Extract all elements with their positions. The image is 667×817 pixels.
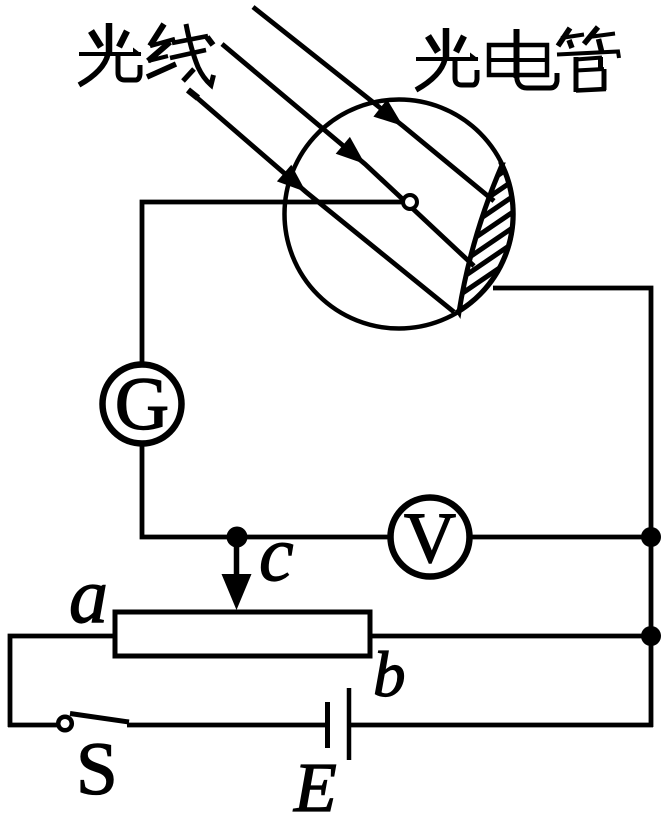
- wire: a-end to left vertical down: [10, 636, 115, 727]
- battery E: short plate: [325, 702, 330, 748]
- light ray 2 (middle): [222, 44, 474, 266]
- wire: anode to left vertical: [142, 202, 403, 362]
- svg-text:c: c: [259, 510, 294, 597]
- wire: V to right vertical: [471, 535, 651, 540]
- switch lever: [70, 714, 129, 723]
- wire: switch to battery: [127, 723, 325, 728]
- text 光电管 : 电: [489, 29, 557, 88]
- switch S pivot: [58, 717, 72, 731]
- wire: bottom left to switch: [8, 723, 58, 728]
- wire: battery to right vertical: [351, 723, 653, 728]
- cathode plate (hatched crescent): [440, 154, 530, 324]
- svg-text:G: G: [115, 363, 169, 446]
- slider arrow c: [222, 546, 252, 610]
- wire: tube right side to right vertical: [493, 288, 651, 727]
- text 光电管 : 光: [416, 28, 479, 90]
- junction dot right middle: [641, 626, 661, 646]
- wire: G bottom to bottom bus: [142, 446, 237, 537]
- wire: b-end to right vertical: [370, 634, 651, 639]
- voltmeter V: [391, 498, 470, 577]
- svg-text:a: a: [69, 552, 108, 639]
- wire: bottom bus left dot to V: [236, 535, 390, 540]
- svg-text:V: V: [404, 498, 456, 578]
- anode terminal (small circle at tube centre): [403, 195, 417, 209]
- battery E: long plate: [347, 688, 352, 760]
- junction dot c-node: [227, 527, 248, 548]
- svg-text:S: S: [76, 728, 118, 811]
- photoelectric tube envelope (circle): [285, 100, 514, 329]
- rheostat body: [115, 612, 370, 656]
- text 光电管 : 管: [557, 27, 619, 92]
- light ray 3 (bottom): [188, 90, 454, 312]
- junction dot right top: [641, 527, 661, 547]
- svg-text:b: b: [373, 639, 406, 711]
- light ray 1 (top): [253, 7, 494, 201]
- text 光线 : 线: [147, 24, 214, 98]
- galvanometer G: [103, 365, 182, 444]
- text 光线 : 光: [79, 23, 142, 85]
- svg-text:E: E: [293, 750, 337, 817]
